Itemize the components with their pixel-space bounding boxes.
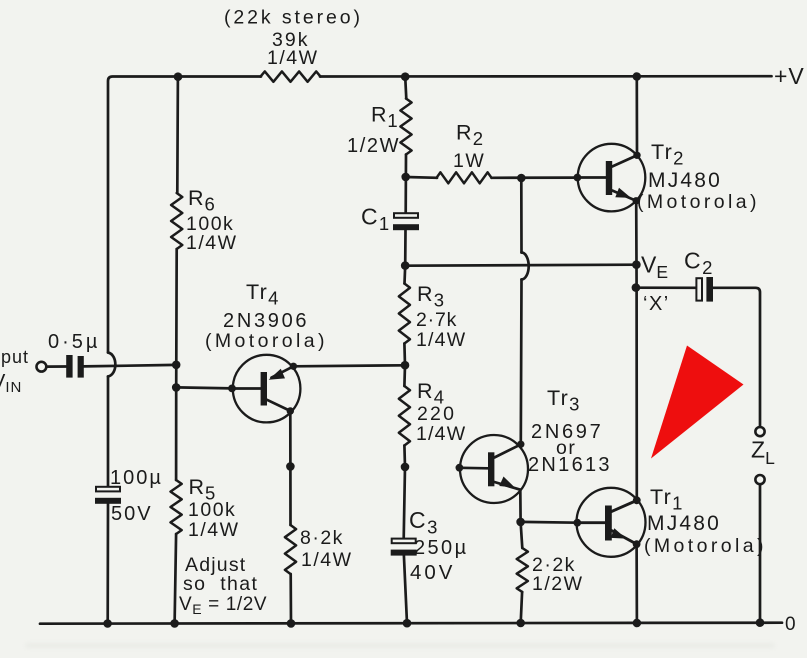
wire 2.2k top lead xyxy=(521,522,523,548)
wire input terminal to C 0.5u xyxy=(47,365,66,368)
scan artifact: faint smudge band along bottom edge xyxy=(25,643,775,648)
svg-text:50V: 50V xyxy=(111,503,153,525)
wire C2 to ZL corner xyxy=(713,288,760,427)
svg-text:1/2W: 1/2W xyxy=(532,573,584,595)
node: Tr3 emitter / 2.2k / Tr1 base junction xyxy=(516,518,525,527)
wire C1 node down to R3 xyxy=(403,266,406,284)
svg-text:1/4W: 1/4W xyxy=(267,47,319,69)
svg-text:(22k stereo): (22k stereo) xyxy=(224,7,363,29)
svg-text:250µ: 250µ xyxy=(414,537,469,559)
svg-text:2N3906: 2N3906 xyxy=(223,310,309,332)
node: Tr3 base at circle xyxy=(456,464,464,472)
wire R1 junction to R2 xyxy=(406,176,437,180)
capacitor 100u 50V electrolytic xyxy=(96,487,120,492)
wire ZL to bottom rail xyxy=(759,484,762,622)
transistor Tr1 MJ480 NPN xyxy=(577,488,646,557)
node: Tr4 collector joins 8.2k / R4 row xyxy=(286,462,295,471)
transistor Tr4 2N3906 PNP xyxy=(233,355,301,423)
wire R1 bottom to C1 xyxy=(404,155,407,214)
node: Tr4 base branch xyxy=(172,383,181,392)
wire node down to C3 xyxy=(404,467,405,539)
wire Tr4 collector down to 8.2k node xyxy=(289,411,292,466)
svg-text:1/4W: 1/4W xyxy=(301,549,353,571)
wire VE row (C1 node to Tr2 emitter column) xyxy=(405,265,636,266)
wire left column below 100u cap xyxy=(106,504,109,624)
node: Tr1 collector exit xyxy=(633,496,641,504)
svg-text:1/4W: 1/4W xyxy=(416,423,466,445)
node: C3 at bottom rail xyxy=(403,619,412,628)
node: R2 / Tr3 collector junction xyxy=(517,174,526,183)
node: Tr4 collector exit xyxy=(287,407,294,414)
wire Tr4 base lead xyxy=(176,387,232,388)
resistor 2.2k 1/2W xyxy=(517,548,528,592)
wire C2 branch to C2 xyxy=(636,286,696,289)
svg-text:40V: 40V xyxy=(410,561,455,584)
node: Tr4 base at circle xyxy=(228,385,236,393)
transistor Tr2 MJ480 NPN xyxy=(578,144,646,212)
wire Tr1 base lead xyxy=(521,521,578,524)
resistor R4 220 1/4W xyxy=(399,386,410,446)
node: Tr2 collector exit xyxy=(633,152,640,159)
svg-text:220: 220 xyxy=(417,403,456,425)
svg-text:MJ480: MJ480 xyxy=(647,512,721,535)
node: Tr1 emitter exit xyxy=(633,540,641,548)
node: R4 bottom / C3 top junction xyxy=(401,463,410,472)
resistor 39k (22k stereo) 1/4W on +V rail xyxy=(261,71,321,81)
svg-text:(Motorola): (Motorola) xyxy=(637,191,760,213)
terminal ZL top (open circle) xyxy=(755,427,764,436)
node: VE junction xyxy=(632,260,641,269)
wire R6 column top lead xyxy=(176,77,179,193)
svg-text:1W: 1W xyxy=(453,150,485,172)
node: input joins R6/R5 column xyxy=(172,361,181,370)
resistor R1 1/2W xyxy=(400,99,411,155)
node: C2 branch xyxy=(632,283,641,292)
wire Tr3 collector column lower xyxy=(519,280,522,445)
input terminal (open circle) xyxy=(37,362,47,372)
wire to R5 xyxy=(175,388,178,481)
wire C3 to bottom rail xyxy=(404,556,407,624)
wire Tr2 collector to top rail xyxy=(635,77,638,156)
svg-text:‘X’: ‘X’ xyxy=(643,293,670,315)
node: top rail joins R6 column xyxy=(174,72,183,81)
wire Tr3 emitter down xyxy=(519,490,522,522)
svg-text:VE = 1/2V: VE = 1/2V xyxy=(179,594,267,617)
node: R3/R4/Tr4-emitter junction xyxy=(401,361,410,370)
svg-text:2N1613: 2N1613 xyxy=(528,454,612,476)
transistor Tr3 2N697/2N1613 NPN xyxy=(460,435,528,503)
wire 2.2k to bottom rail xyxy=(521,592,522,623)
wire R4 to base row xyxy=(403,446,406,467)
wire C1 to VE row xyxy=(404,230,407,265)
wire hop: left column jumps over input wire xyxy=(108,353,115,377)
wire left column below hop to 100u cap xyxy=(107,377,110,487)
svg-text:(Motorola): (Motorola) xyxy=(644,535,767,557)
wire +V top rail (left segment with corner into left column) xyxy=(108,77,261,353)
wire R1 top lead xyxy=(405,77,406,99)
node: Tr1 emitter at bottom rail xyxy=(633,619,642,628)
svg-text:so that: so that xyxy=(183,573,258,595)
svg-text:100µ: 100µ xyxy=(110,467,163,489)
svg-text:100k: 100k xyxy=(188,499,236,521)
node: Tr1 base at circle xyxy=(573,519,581,527)
svg-text:2·7k: 2·7k xyxy=(416,309,457,331)
resistor R2 1W xyxy=(437,172,492,183)
resistor 8.2k 1/4W xyxy=(285,525,296,574)
wire R3 to R4 node xyxy=(403,344,406,366)
resistor R3 2.7k 1/4W xyxy=(399,284,410,344)
svg-text:8·2k: 8·2k xyxy=(300,527,344,549)
terminal ZL bottom (open circle) xyxy=(755,475,764,484)
node: R1/R2 junction xyxy=(401,173,410,182)
node: 8.2k at bottom rail xyxy=(287,619,296,628)
node: top rail joins Tr2 collector column xyxy=(633,72,642,81)
node: C1 bottom / VE row left xyxy=(401,261,410,270)
wire R5 to bottom rail xyxy=(175,534,177,623)
resistor R6 100k 1/4W xyxy=(171,193,182,249)
wire R2 to Tr2 base xyxy=(492,176,578,179)
wire hop over VE row xyxy=(522,253,529,280)
wire 0.5u cap to R6/R5 column (passes under hop) xyxy=(84,365,176,367)
resistor R5 100k 1/4W xyxy=(171,480,182,534)
capacitor C3 250u 40V electrolytic xyxy=(392,539,416,544)
svg-text:0·5µ: 0·5µ xyxy=(48,331,100,353)
node: Tr3 collector exit xyxy=(517,441,524,448)
svg-text:+V: +V xyxy=(774,63,805,89)
wire 8.2k to bottom rail xyxy=(289,574,292,623)
node: Tr2 emitter exit xyxy=(633,197,640,204)
node: top rail joins R1 column xyxy=(401,72,410,81)
capacitor C1 electrolytic xyxy=(394,213,418,218)
wire +V top rail (right segment) xyxy=(320,75,772,78)
annotation: red arrow pointing at X / Tr1 node xyxy=(651,346,744,459)
node: 2.2k at bottom rail xyxy=(516,619,525,628)
svg-text:(Motorola): (Motorola) xyxy=(205,330,328,352)
wire R6 bottom to Tr4 base node xyxy=(175,249,178,388)
capacitor 0.5u input coupling xyxy=(66,355,72,378)
svg-text:put: put xyxy=(1,347,29,367)
node: left column at bottom rail xyxy=(103,619,112,628)
wire Tr2 emitter down to Tr1 collector xyxy=(635,201,638,500)
svg-text:1/2W: 1/2W xyxy=(347,135,400,157)
node: Tr4 emitter exit xyxy=(290,363,297,370)
svg-text:1/4W: 1/4W xyxy=(186,232,238,254)
wire Tr4 emitter to R3/R4 node xyxy=(293,365,405,366)
wire 0V bottom rail xyxy=(40,623,782,624)
svg-text:MJ480: MJ480 xyxy=(648,169,722,192)
capacitor C2 output coupling xyxy=(696,278,702,300)
wire 8.2k top lead xyxy=(289,466,292,525)
wire Tr3 collector column upper xyxy=(520,178,523,253)
svg-text:1/4W: 1/4W xyxy=(416,329,466,351)
node: Tr2 base at circle xyxy=(574,174,582,182)
node: ZL column at bottom rail xyxy=(756,618,765,627)
wire Tr1 emitter to bottom rail xyxy=(635,544,638,623)
svg-text:0: 0 xyxy=(785,614,796,635)
svg-text:1/4W: 1/4W xyxy=(188,519,240,541)
wire node to R4 xyxy=(403,365,406,386)
node: R5 column at bottom rail xyxy=(170,619,179,628)
